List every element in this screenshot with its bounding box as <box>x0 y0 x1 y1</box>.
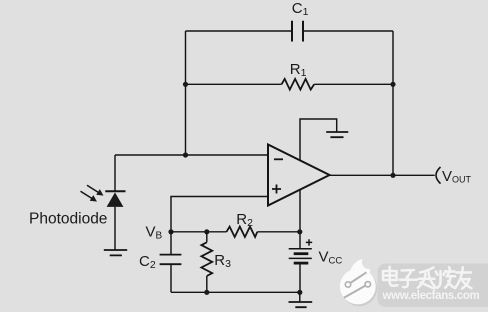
wire R1 left lead <box>186 83 282 85</box>
ground photodiode <box>104 250 127 255</box>
capacitor C1 <box>292 21 303 42</box>
label C1 <box>292 0 309 18</box>
label Photodiode <box>29 211 107 228</box>
wire top to C1 left plate <box>186 30 293 32</box>
ground op-amp <box>326 132 348 137</box>
svg-text:Photodiode: Photodiode <box>29 211 107 228</box>
junction dot R1 left <box>183 82 188 87</box>
photodiode D1 <box>105 191 125 207</box>
label VCC <box>319 249 343 267</box>
light arrow 1 <box>87 185 104 195</box>
junction dot R3 top <box>204 229 209 234</box>
wire feedback left vertical <box>185 31 187 155</box>
wire C2 bottom lead <box>170 264 172 292</box>
watermark logo <box>340 259 377 307</box>
wire bottom rail <box>171 291 300 293</box>
wire R1 right lead <box>314 83 393 85</box>
resistor R2 <box>227 227 258 237</box>
label R3 <box>214 252 231 270</box>
wire op-amp bottom power pin <box>299 190 301 249</box>
junction dot R1 right <box>390 82 395 87</box>
wire to bottom ground <box>299 292 301 302</box>
wire non-inverting input <box>171 197 268 232</box>
watermark panel <box>378 264 488 308</box>
junction dot supply node <box>297 229 302 234</box>
wire battery to bottom rail <box>299 264 301 292</box>
wire R2 right lead <box>257 231 300 233</box>
label R1 <box>290 61 307 79</box>
wire photodiode cathode lead <box>114 155 116 191</box>
wire op-amp output <box>330 174 435 176</box>
ground bottom <box>289 302 313 307</box>
wire C2 top lead <box>170 232 172 255</box>
junction dot inverting node <box>183 152 188 157</box>
watermark url <box>382 290 480 302</box>
wire op-amp top power pin <box>300 119 337 161</box>
node VB <box>168 229 173 234</box>
wire inverting input <box>115 154 268 156</box>
battery VCC <box>289 239 313 263</box>
svg-text:www.elecfans.com: www.elecfans.com <box>382 290 480 302</box>
capacitor C2 <box>160 255 182 265</box>
watermark chinese text <box>383 267 472 289</box>
resistor R1 <box>282 79 315 90</box>
wire right feedback vertical <box>392 31 394 175</box>
label VB <box>146 224 163 242</box>
light arrow 2 <box>81 191 98 201</box>
junction dot bottom R3 <box>204 290 209 295</box>
wire R3 bottom lead <box>206 276 208 292</box>
wire VB row to R2 <box>171 231 227 233</box>
junction dot bottom supply <box>297 290 302 295</box>
junction dot output <box>390 173 395 178</box>
wire C1 right plate to right vertical <box>303 30 393 32</box>
wire photodiode anode lead <box>114 207 116 250</box>
label C2 <box>139 253 156 271</box>
terminal VOUT <box>436 167 441 184</box>
label R2 <box>236 211 253 229</box>
op-amp U1 <box>268 145 330 206</box>
label VOUT <box>442 168 472 185</box>
resistor R3 <box>201 242 212 276</box>
wire R3 top lead <box>206 232 208 243</box>
